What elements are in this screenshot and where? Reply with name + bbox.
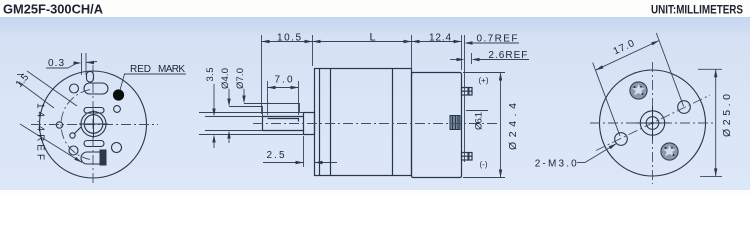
svg-text:(+): (+) <box>479 76 489 85</box>
svg-text:UNIT:MILLIMETERS: UNIT:MILLIMETERS <box>651 5 743 17</box>
svg-text:Ø4.0: Ø4.0 <box>220 68 231 89</box>
svg-text:7.0: 7.0 <box>275 75 293 86</box>
svg-text:2.6REF: 2.6REF <box>488 50 527 61</box>
svg-text:Ø25.0: Ø25.0 <box>721 94 733 137</box>
svg-text:10.5: 10.5 <box>277 32 301 43</box>
svg-text:12.4: 12.4 <box>429 33 451 44</box>
svg-text:L: L <box>369 31 375 43</box>
svg-text:RED: RED <box>130 64 151 75</box>
svg-text:0.3: 0.3 <box>48 58 64 69</box>
svg-text:Ø6.1: Ø6.1 <box>474 112 485 130</box>
svg-text:GM25F-300CH/A: GM25F-300CH/A <box>3 2 104 17</box>
svg-text:(-): (-) <box>480 160 488 169</box>
svg-text:MARK: MARK <box>158 64 185 75</box>
svg-text:0.7REF: 0.7REF <box>477 34 518 45</box>
svg-text:Ø7.0: Ø7.0 <box>235 68 246 89</box>
svg-text:2.5: 2.5 <box>267 150 285 161</box>
svg-text:3.5: 3.5 <box>205 68 216 82</box>
